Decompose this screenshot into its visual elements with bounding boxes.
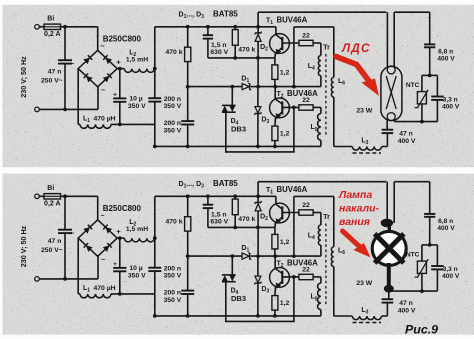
svg-text:~: ~	[100, 213, 104, 220]
svg-text:NTC: NTC	[406, 251, 420, 258]
svg-text:вания: вания	[339, 216, 370, 228]
winding L4 '	[318, 225, 321, 245]
terminal input top '	[35, 194, 40, 199]
svg-text:DB3: DB3	[231, 294, 246, 303]
incandescent lamp	[386, 182, 388, 222]
terminal input bottom '	[35, 277, 40, 282]
svg-text:350 V: 350 V	[128, 272, 146, 279]
mid-point line with D1 '	[188, 255, 242, 257]
inductor L3	[382, 146, 388, 148]
svg-text:22: 22	[302, 266, 310, 273]
resistor 470k first '	[187, 196, 189, 216]
diac D4 DB3	[231, 87, 233, 106]
svg-text:47 n: 47 n	[48, 68, 62, 75]
capacitor 200n 350V upper	[154, 69, 156, 99]
fuse Bi 0,2A	[44, 24, 61, 29]
bottom rail	[155, 145, 321, 147]
upper rail to lamp	[257, 12, 259, 27]
capacitor 6,8n 400V	[429, 12, 431, 44]
svg-text:6,8 n: 6,8 n	[438, 49, 453, 56]
svg-text:350 V: 350 V	[164, 297, 182, 304]
svg-text:DB3: DB3	[231, 125, 246, 134]
svg-text:Рис.9: Рис.9	[405, 323, 438, 337]
svg-text:1,2: 1,2	[280, 239, 290, 246]
svg-text:22: 22	[302, 32, 310, 39]
svg-text:470 k: 470 k	[165, 49, 182, 56]
winding L5 '	[318, 283, 321, 310]
svg-text:NTC: NTC	[406, 82, 420, 89]
svg-text:10 µ: 10 µ	[129, 265, 142, 272]
svg-text:Лампа: Лампа	[338, 189, 372, 201]
svg-text:1,5 n: 1,5 n	[211, 42, 227, 49]
svg-text:22: 22	[302, 97, 310, 104]
transistor T1 BUV46A '	[270, 203, 290, 223]
fuse Bi 0,2A '	[44, 194, 61, 199]
svg-text:BAT85: BAT85	[213, 10, 238, 19]
scan noise	[0, 0, 1, 1]
svg-text:1,2: 1,2	[280, 131, 290, 138]
lamp bottom node line	[394, 121, 437, 123]
capacitor 47n 250V	[64, 27, 66, 60]
svg-text:250 V~: 250 V~	[41, 247, 63, 254]
svg-text:Bi: Bi	[47, 185, 54, 192]
resistor 470k second	[234, 27, 236, 30]
mid-point line with D1	[188, 86, 242, 88]
svg-text:3,3 n: 3,3 n	[443, 266, 458, 273]
capacitor 3,3n 400V '	[436, 245, 438, 266]
diode D1 BAT85 '	[242, 253, 249, 259]
wire fuse to bridge top	[61, 26, 98, 28]
svg-text:47 n: 47 n	[399, 300, 413, 307]
transformer core Tr	[325, 54, 327, 137]
svg-text:350 V: 350 V	[164, 103, 182, 110]
DC bus rail '	[154, 196, 156, 238]
resistor 470k first	[187, 27, 189, 47]
lamp pins	[386, 12, 388, 67]
svg-text:~: ~	[101, 88, 105, 95]
svg-text:BUV46A: BUV46A	[277, 16, 308, 25]
incandescent lamp lower lead	[387, 263, 391, 289]
resistor 1,2 emitter T1 '	[272, 234, 278, 249]
diode D2 BAT85	[257, 27, 259, 33]
resistor 22 base T2	[282, 106, 299, 108]
resistor 22 base T1	[282, 42, 299, 44]
fluorescent lamp 23W	[381, 66, 402, 120]
transformer core Tr '	[325, 224, 327, 307]
svg-text:23 W: 23 W	[356, 107, 372, 114]
svg-text:+: +	[113, 91, 117, 98]
capacitor 47n 400V	[386, 133, 388, 147]
emitter node line	[208, 57, 275, 59]
resistor 22 base T1 '	[282, 212, 299, 214]
svg-text:~: ~	[101, 257, 105, 264]
svg-text:400 V: 400 V	[398, 307, 416, 314]
svg-text:Bi: Bi	[47, 15, 54, 22]
capacitor 200n 350V lower	[186, 85, 190, 89]
resistor 1,2 emitter T2 '	[272, 296, 278, 311]
diac D4 DB3 '	[231, 256, 233, 275]
svg-text:Tr: Tr	[323, 45, 330, 52]
bottom rail '	[155, 315, 321, 317]
inductor L1 470uH '	[77, 238, 79, 294]
svg-text:350 V: 350 V	[128, 103, 146, 110]
capacitor 47n 400V '	[386, 302, 388, 316]
NTC thermistor	[422, 74, 438, 76]
svg-text:470 µH: 470 µH	[94, 115, 116, 122]
winding L6 '	[331, 247, 333, 267]
lamp bottom node line '	[394, 290, 437, 292]
diode D3 BAT85	[257, 87, 259, 107]
winding L6 riser to midpoint	[293, 27, 295, 87]
svg-text:400 V: 400 V	[442, 104, 460, 111]
diode D2 BAT85 '	[257, 196, 259, 202]
diode D3 BAT85 '	[257, 256, 259, 276]
svg-text:22: 22	[302, 202, 310, 209]
resistor 1,2 emitter T2	[272, 126, 278, 141]
bridge rectifier B250C800	[78, 50, 117, 87]
svg-text:350 V: 350 V	[164, 127, 182, 134]
emitter node line '	[208, 226, 275, 228]
svg-text:B250C800: B250C800	[103, 35, 142, 44]
svg-text:1,5 n: 1,5 n	[211, 212, 227, 219]
red arrow to lamp	[336, 57, 371, 84]
transistor T2 BUV46A '	[270, 268, 290, 288]
svg-text:350 V: 350 V	[164, 273, 182, 280]
svg-text:BAT85: BAT85	[213, 179, 238, 188]
capacitor 200n 350V upper '	[154, 238, 156, 268]
capacitor 10u 350V '	[118, 236, 122, 240]
transistor T2 BUV46A	[270, 98, 290, 118]
svg-text:400 V: 400 V	[437, 225, 455, 232]
winding L5	[318, 114, 321, 141]
resistor 470k second '	[234, 196, 236, 199]
svg-text:230 V; 50 Hz: 230 V; 50 Hz	[19, 225, 28, 267]
svg-text:470 k: 470 k	[238, 216, 255, 223]
svg-text:200 n: 200 n	[164, 120, 181, 127]
svg-text:3,3 n: 3,3 n	[443, 96, 458, 103]
winding L6	[331, 77, 333, 97]
transistor T1 BUV46A	[270, 34, 290, 54]
svg-text:470 k: 470 k	[165, 219, 182, 226]
svg-text:200 n: 200 n	[164, 290, 181, 297]
svg-text:6,8 n: 6,8 n	[438, 218, 453, 225]
capacitor 10u 350V	[118, 67, 122, 71]
svg-text:400 V: 400 V	[442, 273, 460, 280]
top scan panel	[3, 5, 474, 167]
svg-text:10 µ: 10 µ	[129, 96, 142, 103]
svg-text:накали-: накали-	[339, 203, 380, 215]
svg-text:B250C800: B250C800	[103, 204, 142, 213]
bottom scan panel	[3, 174, 474, 335]
inductor L3 '	[382, 315, 388, 317]
svg-text:400 V: 400 V	[398, 138, 416, 145]
svg-text:230 V; 50 Hz: 230 V; 50 Hz	[19, 56, 28, 98]
upper rail to lamp '	[257, 182, 259, 197]
svg-text:200 n: 200 n	[164, 265, 181, 272]
svg-text:1,2: 1,2	[280, 300, 290, 307]
inductor L2 1,5mH '	[117, 237, 124, 239]
svg-text:400 V: 400 V	[437, 56, 455, 63]
svg-text:47 n: 47 n	[399, 131, 413, 138]
svg-text:0,2 A: 0,2 A	[44, 201, 60, 208]
svg-text:47 n: 47 n	[48, 238, 62, 245]
resistor 22 base T2 '	[282, 276, 299, 278]
capacitor 6,8n 400V '	[429, 182, 431, 214]
svg-text:0,2 A: 0,2 A	[44, 31, 60, 38]
svg-text:1,2: 1,2	[280, 69, 290, 76]
svg-text:250 V~: 250 V~	[41, 78, 63, 85]
svg-text:Tr: Tr	[323, 214, 330, 221]
svg-text:470 k: 470 k	[238, 47, 255, 54]
svg-text:ЛДС: ЛДС	[341, 41, 371, 55]
diode D1 BAT85	[242, 84, 249, 90]
svg-text:200 n: 200 n	[164, 96, 181, 103]
svg-text:630 V: 630 V	[210, 219, 228, 226]
DC bus rail	[154, 27, 156, 69]
red arrow to lamp	[343, 231, 361, 247]
svg-text:23 W: 23 W	[356, 280, 372, 287]
svg-text:470 µH: 470 µH	[94, 285, 116, 292]
capacitor 1,5n 630V	[207, 27, 209, 35]
terminal input bottom	[35, 107, 40, 112]
capacitor 3,3n 400V	[436, 75, 438, 96]
wire fuse to bridge top '	[61, 195, 98, 197]
svg-text:630 V: 630 V	[210, 49, 228, 56]
inductor L1 470uH	[77, 69, 79, 125]
NTC thermistor '	[422, 244, 438, 246]
svg-text:+: +	[113, 261, 117, 268]
winding L4	[318, 56, 321, 76]
inductor L2 1,5mH	[117, 68, 124, 70]
terminal input top	[35, 25, 40, 30]
svg-text:1,5 mH: 1,5 mH	[126, 57, 148, 64]
svg-text:~: ~	[70, 230, 74, 237]
svg-text:~: ~	[70, 61, 74, 68]
svg-text:+: +	[116, 58, 121, 67]
capacitor 1,5n 630V '	[207, 196, 209, 204]
resistor 1,2 emitter T1	[272, 65, 278, 80]
capacitor 47n 250V '	[64, 196, 66, 229]
winding L6 riser to midpoint '	[293, 196, 295, 256]
bridge rectifier B250C800 '	[78, 220, 117, 256]
svg-text:BUV46A: BUV46A	[277, 185, 308, 194]
capacitor 200n 350V lower '	[186, 254, 190, 258]
svg-text:+: +	[116, 227, 121, 236]
svg-text:~: ~	[100, 43, 104, 50]
svg-text:1,5 mH: 1,5 mH	[126, 226, 148, 233]
